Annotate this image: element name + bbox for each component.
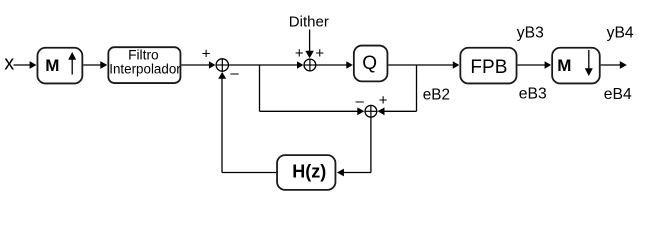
block Q quantizer [354, 46, 388, 82]
summing junction S2 [304, 59, 317, 72]
wire H(z) to S1 feedback up with arrowhead [218, 72, 276, 173]
wire x to M-up with arrowhead [14, 61, 37, 69]
block M-downsampler [552, 48, 600, 84]
svg-text:+: + [315, 45, 324, 62]
svg-text:FPB: FPB [470, 57, 507, 78]
svg-text:Q: Q [362, 53, 377, 74]
wire Q to FPB with arrowhead [388, 61, 459, 69]
summing junction S3 [365, 105, 378, 118]
wire S2 to Q with arrowhead [316, 61, 353, 69]
wire Dither to S2 with arrowhead [305, 30, 314, 59]
wire branch down before Q (node after S1) [260, 66, 365, 116]
wire branch down after Q (node eB2) [378, 66, 417, 116]
svg-text:eB3: eB3 [519, 85, 547, 102]
wire M-up to Filtro with arrowhead [83, 61, 107, 69]
svg-text:+: + [379, 92, 388, 109]
svg-text:eB2: eB2 [423, 86, 450, 103]
svg-text:+: + [295, 45, 304, 62]
block H(z) [277, 155, 335, 190]
svg-text:M: M [45, 56, 59, 75]
svg-text:Filtro: Filtro [128, 47, 159, 62]
block FPB [460, 48, 516, 84]
svg-text:Dither: Dither [289, 14, 329, 31]
wire S3 down and left to H(z) with arrowhead [337, 118, 371, 177]
svg-text:yB3: yB3 [517, 25, 544, 42]
svg-text:M: M [557, 56, 571, 75]
svg-text:–: – [356, 93, 365, 110]
block M-upsampler [37, 48, 82, 84]
svg-text:–: – [230, 65, 239, 82]
wire M-down output with arrowhead [601, 61, 627, 69]
summing junction S1 [216, 58, 230, 72]
svg-text:yB4: yB4 [607, 25, 634, 42]
wire S1 to summing junction S2 with arrowhead [229, 61, 303, 69]
wire FPB to M-down with arrowhead [518, 61, 552, 69]
svg-text:x: x [4, 53, 14, 75]
svg-text:+: + [202, 45, 211, 62]
svg-text:eB4: eB4 [604, 86, 632, 103]
svg-text:Interpolador: Interpolador [109, 62, 181, 77]
block Filtro Interpolador [108, 47, 181, 83]
wire Filtro to summing junction S1 with arrowhead [181, 61, 215, 69]
svg-text:H(z): H(z) [292, 161, 326, 181]
